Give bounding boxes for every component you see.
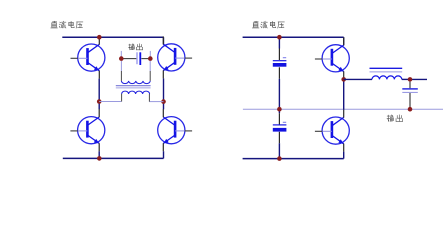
label output (left) — [127, 42, 129, 44]
wire to inductor — [344, 78, 372, 80]
wire mid line — [243, 108, 443, 110]
top winding leads — [120, 61, 122, 71]
wire midpoint to transformer (left) — [99, 101, 121, 103]
wire top rail right — [243, 36, 344, 38]
transistor Q6 — [315, 110, 349, 152]
wire midpoint to transformer (right) — [149, 101, 163, 103]
wire left leg — [98, 79, 100, 110]
node output bottom — [408, 107, 413, 112]
capacitor C2 (top electrolytic) — [273, 58, 287, 67]
inductor L1 — [370, 68, 403, 79]
node cap-row left — [119, 56, 124, 61]
transistor Q3 — [70, 109, 104, 151]
node right midpoint — [161, 99, 166, 104]
wire inductor to node — [402, 78, 410, 80]
node output top — [408, 77, 413, 82]
wire top rail left — [62, 36, 163, 38]
transistor Q5 — [315, 37, 349, 79]
top winding — [121, 81, 150, 84]
output terminal stubs (left circuit) — [120, 51, 122, 59]
wire right leg — [163, 37, 165, 44]
capacitor C4 (output filter) — [402, 82, 418, 108]
label DC voltage (right) — [251, 20, 253, 22]
bottom winding — [122, 91, 150, 94]
node top rail cap junction — [277, 35, 282, 40]
node bottom rail junction — [97, 156, 102, 161]
wire capacitor leg — [278, 37, 280, 48]
node top rail junction — [97, 35, 102, 40]
core — [116, 85, 151, 87]
transistor Q4 (mirrored) — [158, 109, 192, 151]
label DC voltage (left) — [49, 20, 51, 22]
node mid cap junction — [277, 107, 282, 112]
bottom winding leads — [121, 94, 123, 102]
node bottom rail cap junction — [277, 156, 282, 161]
wire bottom rail left — [63, 157, 164, 159]
capacitor C1 (left circuit output cap) — [123, 58, 136, 60]
node emitter junction — [341, 77, 346, 82]
wire bottom rail right — [243, 158, 344, 160]
transistor Q2 (mirrored) — [158, 36, 192, 78]
node left midpoint — [97, 99, 102, 104]
wire output stub — [410, 78, 427, 80]
transistor Q1 — [71, 37, 105, 79]
transformer T1 — [116, 61, 151, 102]
label output (right) — [386, 113, 388, 115]
wire transistor leg (right circuit) — [343, 37, 345, 45]
capacitor C3 (bottom electrolytic) — [273, 122, 287, 131]
node cap-row right — [148, 56, 153, 61]
hand-drawn glyphs appended by script below — [51, 21, 403, 121]
